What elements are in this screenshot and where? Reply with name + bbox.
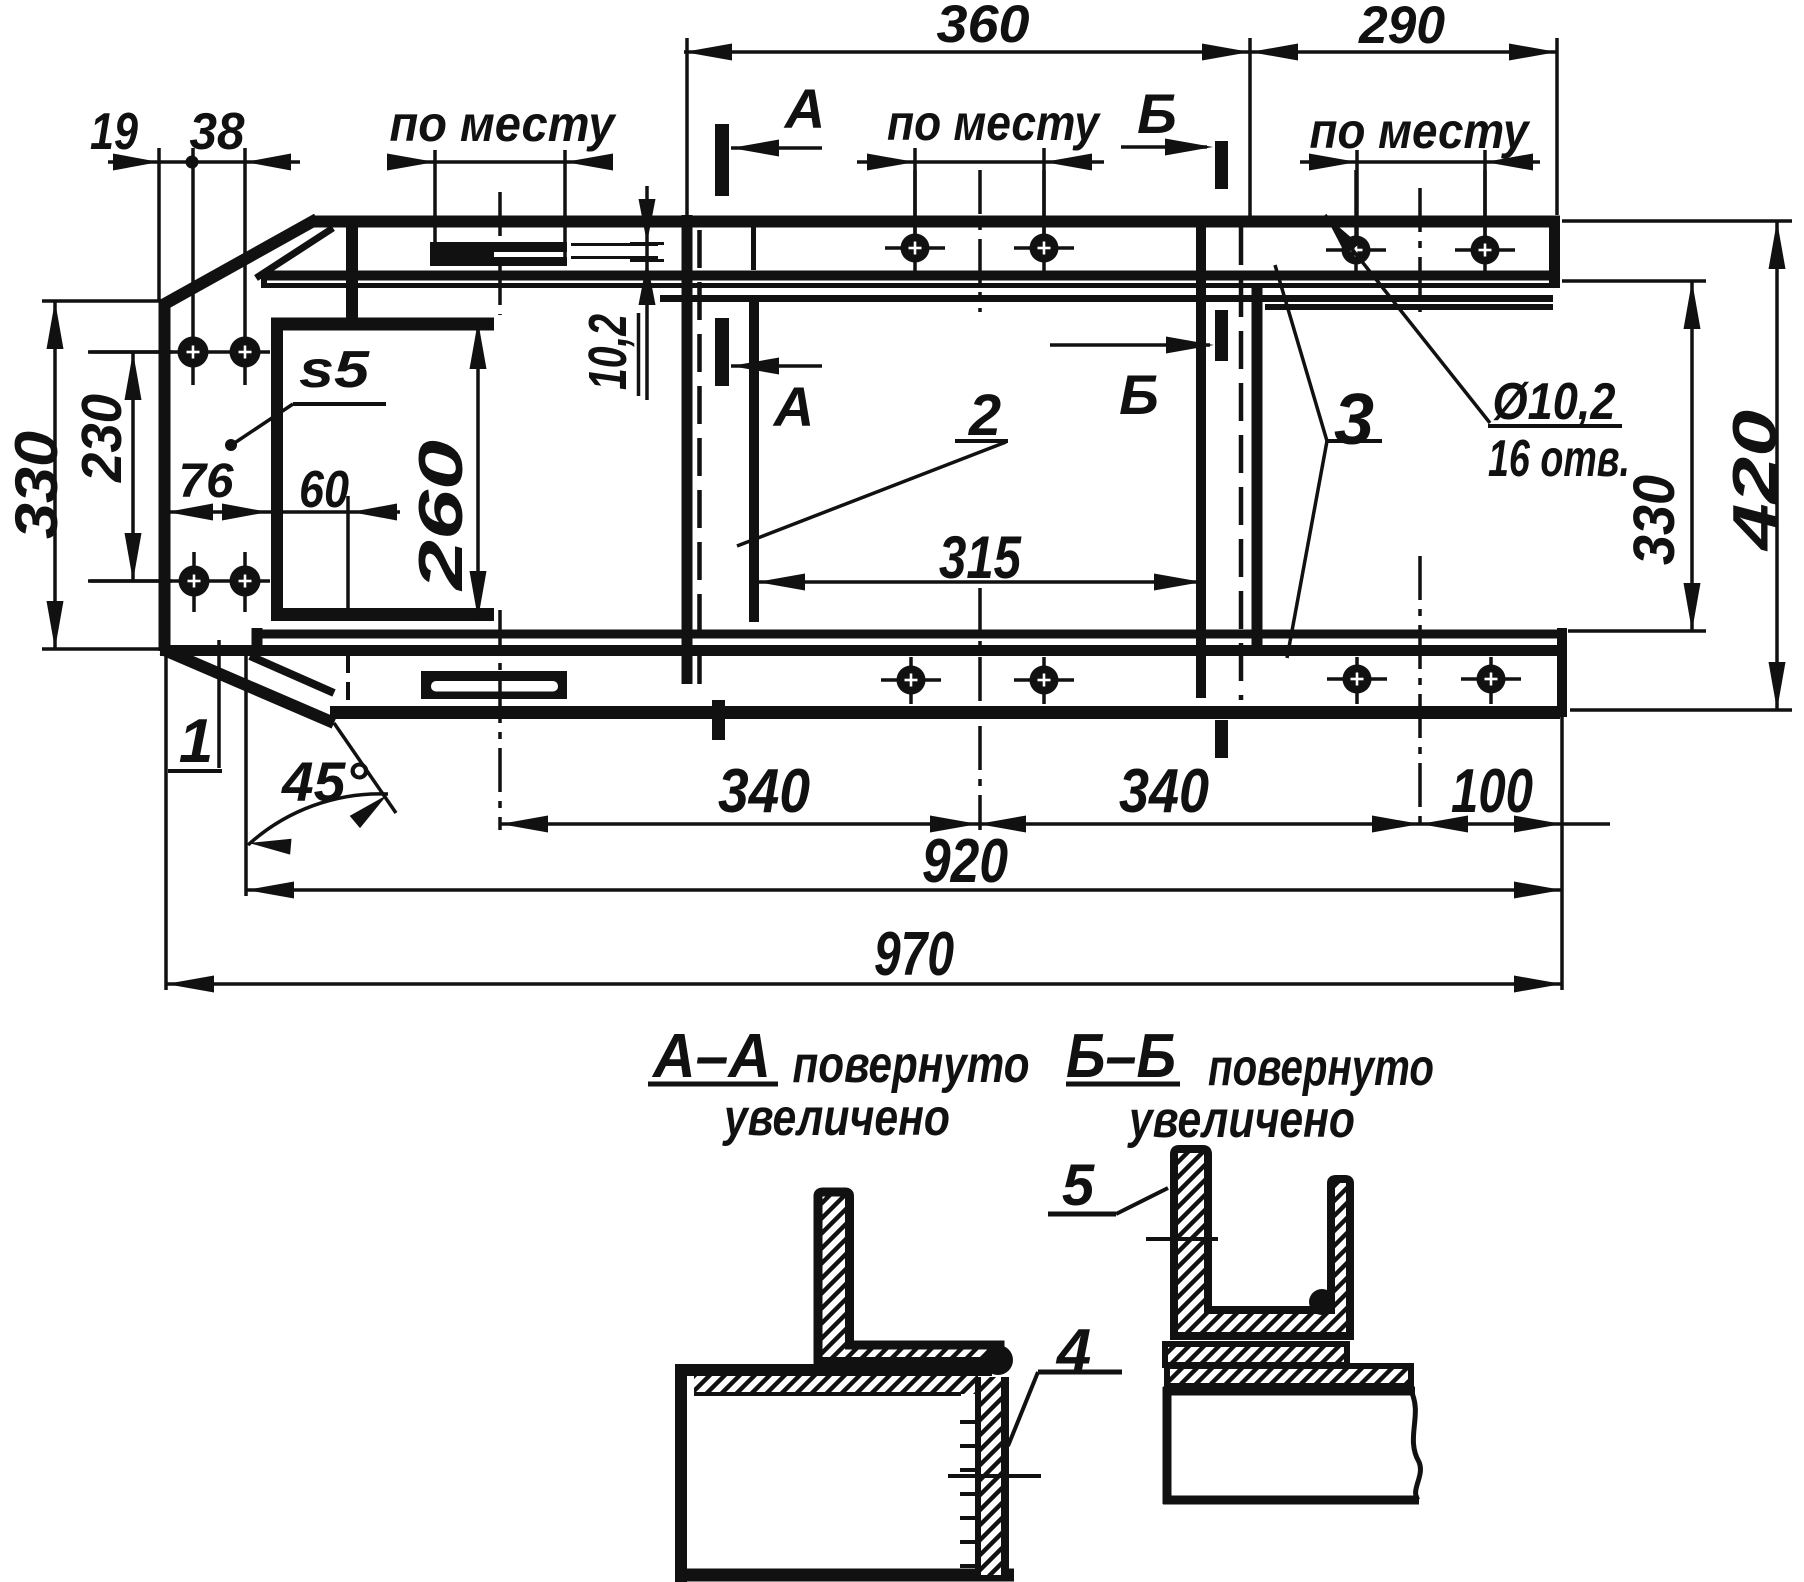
- cross member B hidden edge: [1239, 227, 1244, 700]
- section B-B channel item 5: [1174, 1149, 1350, 1336]
- section mark B top arrow: [1121, 145, 1207, 149]
- front plate hole 4: [243, 552, 247, 612]
- section A-A box tube item 4: [675, 1364, 1014, 1582]
- section mark A middle bar: [715, 318, 729, 386]
- centerline slot left: [498, 192, 502, 315]
- svg-text:по месту: по месту: [1310, 103, 1531, 159]
- svg-text:100: 100: [1451, 757, 1533, 826]
- section A-A weld blob: [983, 1345, 1013, 1375]
- bottom rail flange line 1: [252, 630, 1560, 639]
- dimension 230: [90, 350, 172, 354]
- bottom rail flange line 2 and plate bottom edge: [160, 645, 1560, 656]
- section mark B middle arrow: [1050, 343, 1210, 347]
- cross member A right edge: [751, 226, 756, 270]
- section mark A top bar: [715, 124, 729, 196]
- top rail hole 2: [1014, 246, 1074, 250]
- svg-text:по месту: по месту: [887, 95, 1101, 151]
- hidden flange line x348: [346, 248, 350, 292]
- svg-text:260: 260: [407, 440, 476, 591]
- svg-text:970: 970: [874, 920, 954, 989]
- top rail flange line 4: [660, 295, 1553, 302]
- svg-text:А: А: [772, 375, 814, 438]
- top rail hole 3: [1326, 248, 1386, 252]
- dimension 330 right: [1562, 279, 1706, 283]
- svg-text:60: 60: [299, 461, 349, 519]
- bottom rail left cap: [252, 628, 263, 656]
- front plate hole 1: [191, 148, 195, 385]
- top rail slot: [432, 242, 567, 252]
- svg-text:Б–Б: Б–Б: [1066, 1022, 1176, 1091]
- top rail right end cap: [1549, 216, 1560, 288]
- dimension 420: [1562, 219, 1792, 223]
- svg-text:76: 76: [179, 455, 234, 508]
- section B-B tick on left leg: [1146, 1237, 1218, 1241]
- opening box bottom edge: [271, 608, 494, 621]
- dimension 10,2: [645, 186, 649, 400]
- svg-text:Ø10,2: Ø10,2: [1493, 373, 1616, 431]
- top rail outer edge: [313, 216, 1560, 228]
- svg-text:Б: Б: [1137, 82, 1177, 145]
- svg-text:45°: 45°: [281, 750, 369, 813]
- svg-text:А: А: [783, 77, 825, 140]
- svg-text:повернуто: повернуто: [793, 1036, 1030, 1094]
- front plate hole row line bottom: [88, 579, 270, 583]
- section A-A axis tick: [948, 1474, 1041, 1478]
- svg-text:16 отв.: 16 отв.: [1488, 430, 1630, 488]
- front plate hole 2: [243, 148, 247, 385]
- cross member B right edge: [1252, 287, 1263, 651]
- svg-text:340: 340: [718, 757, 810, 826]
- section B-B box tube: [1163, 1387, 1420, 1504]
- top rail hole 1: [885, 246, 945, 250]
- dimension 45 degrees: [244, 652, 248, 896]
- svg-text:10,2: 10,2: [578, 314, 638, 390]
- svg-text:увеличено: увеличено: [722, 1089, 950, 1147]
- svg-text:А–А: А–А: [651, 1022, 771, 1091]
- bottom rail hole 3: [1327, 677, 1387, 681]
- front plate bottom bevel: [162, 649, 334, 723]
- section mark B bottom bar: [1215, 720, 1228, 758]
- front plate item1 left edge: [159, 299, 171, 651]
- svg-text:s5: s5: [299, 341, 370, 399]
- section mark B top bar: [1215, 141, 1228, 189]
- svg-text:увеличено: увеличено: [1127, 1091, 1355, 1149]
- opening box to rail connector: [346, 227, 358, 324]
- svg-text:340: 340: [1119, 757, 1209, 826]
- cross member A left edge: [685, 38, 689, 215]
- top rail hole 4: [1455, 248, 1515, 252]
- svg-text:3: 3: [1334, 380, 1374, 460]
- svg-text:4: 4: [1055, 1317, 1091, 1386]
- top rail flange line 2: [262, 271, 1556, 281]
- front plate top bevel: [161, 219, 317, 306]
- section A-A angle item 5: [818, 1192, 1000, 1362]
- section mark A bottom bar: [712, 700, 725, 740]
- svg-text:230: 230: [70, 394, 134, 483]
- cross member B left edge: [1196, 227, 1206, 698]
- opening box top edge: [271, 318, 494, 331]
- opening box left edge: [271, 318, 283, 621]
- front plate top inner bevel line: [256, 228, 333, 278]
- bottom rail right end cap: [1557, 628, 1567, 717]
- front plate hole row line top: [88, 350, 270, 354]
- svg-text:420: 420: [1721, 410, 1790, 553]
- top rail flange line 3: [262, 283, 1560, 288]
- section mark B middle bar: [1215, 310, 1228, 361]
- svg-text:1: 1: [179, 707, 213, 776]
- svg-text:330: 330: [1622, 475, 1687, 565]
- centerline right holes: [1418, 188, 1422, 312]
- top rail left flange cap: [261, 271, 267, 288]
- svg-text:330: 330: [3, 431, 70, 539]
- svg-text:по месту: по месту: [390, 96, 617, 152]
- svg-text:Б: Б: [1119, 363, 1159, 426]
- svg-text:360: 360: [937, 0, 1030, 54]
- section B-B rail flange plate: [1165, 1344, 1347, 1365]
- section mark A top arrow: [731, 146, 822, 150]
- section B-B weld blob: [1309, 1289, 1335, 1315]
- bottom rail hole 2: [1014, 678, 1074, 682]
- front plate bottom inner bevel line: [250, 656, 334, 693]
- section mark A middle arrow: [731, 364, 822, 368]
- svg-text:290: 290: [1358, 0, 1445, 55]
- svg-text:19: 19: [90, 103, 138, 161]
- top rail angle item3 line: [1265, 304, 1553, 310]
- svg-text:повернуто: повернуто: [1208, 1039, 1434, 1097]
- dimension 260: [476, 321, 480, 619]
- svg-text:920: 920: [922, 827, 1008, 896]
- cross member A hidden edge: [697, 230, 702, 698]
- svg-text:2: 2: [968, 383, 1001, 448]
- bottom rail outer edge: [330, 706, 1560, 719]
- svg-text:38: 38: [190, 103, 245, 161]
- centerline frame middle: [978, 170, 982, 312]
- svg-text:5: 5: [1062, 1153, 1095, 1218]
- dimension 330 left: [42, 299, 162, 303]
- bottom rail hole 1: [881, 678, 941, 682]
- bottom rail hole 4: [1461, 677, 1521, 681]
- front plate hole 3: [192, 552, 196, 612]
- bottom rail slot: [421, 671, 567, 699]
- section A-A right wall stitch ticks: [960, 1420, 978, 1424]
- section B-B lower plate: [1167, 1366, 1411, 1386]
